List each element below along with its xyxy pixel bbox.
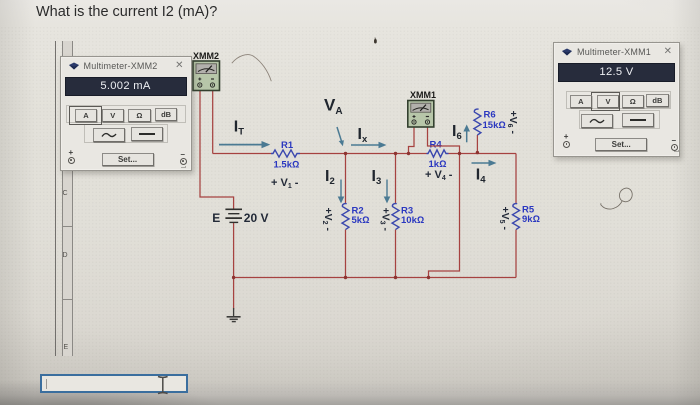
wire mid-right vertical with jog to bottom rail [429,154,460,278]
VA pointer arrow [337,127,344,146]
answer input box [40,374,188,393]
resistor R2 [342,204,369,230]
wire R2 branch top [345,154,347,205]
svg-text:+V5 -: +V5 - [498,207,511,231]
multimeter icon XMM1 [408,90,436,127]
scratch arc doodle [232,55,271,82]
zone letter E [64,344,69,351]
resistor R3 [392,204,424,230]
svg-text:E: E [212,211,220,225]
I-beam mouse cursor [153,372,173,398]
arrow I6 [463,125,470,143]
grip mark XMM1 window corner [674,150,679,152]
junction node XMM1- [458,152,461,155]
zone letter C [63,190,68,197]
wire bottom rail [234,277,516,279]
svg-text:I3: I3 [372,168,382,187]
wire R3 branch top [395,154,397,205]
instrument window XMM1 [553,42,680,157]
svg-text:+V6 -: +V6 - [506,111,519,135]
multimeter icon XMM2 [193,51,220,91]
svg-text:VA: VA [324,96,343,118]
ground [227,308,241,322]
svg-text:20 V: 20 V [244,211,269,225]
svg-text:9kΩ: 9kΩ [522,214,540,225]
svg-text:I6: I6 [452,123,462,142]
question text [36,4,217,20]
battery E 20V [212,209,268,225]
grip mark XMM2 window corner [181,166,186,168]
junction node top R2 [344,152,347,155]
svg-text:+ V1 -: + V1 - [271,177,299,190]
wire XMM1 + terminal jog to rail [409,125,415,154]
junction node XMM1+ [407,152,410,155]
arrow I4 [472,160,497,167]
small ink dot [374,39,377,44]
junction node jog bottom [427,276,430,279]
svg-text:+V2 -: +V2 - [321,208,334,232]
svg-text:10kΩ: 10kΩ [401,215,424,226]
resistor R4 [427,140,449,171]
junction node battery bottom [232,276,235,279]
svg-text:I2: I2 [325,168,335,187]
label +V5- (rotated) [498,207,511,231]
svg-text:R4: R4 [430,140,443,151]
wire XMM2 + terminal to battery top [200,88,234,209]
svg-text:I4: I4 [476,167,486,186]
wire top rail left segment [213,153,271,155]
junction node R3 bottom [394,276,397,279]
wire R5 branch top [515,154,517,205]
junction node R2 bottom [344,276,347,279]
svg-text:+V3 -: +V3 - [379,208,392,232]
svg-text:15kΩ: 15kΩ [483,120,506,131]
arrow I3 [384,180,391,204]
zone letter D [63,252,68,259]
svg-text:XMM2: XMM2 [193,51,219,61]
svg-text:Ix: Ix [358,126,368,145]
resistor R1 [271,140,300,171]
label +V6- (rotated) [506,111,519,135]
label +V2- (rotated) [321,208,334,232]
arrow Ix [351,142,387,149]
instrument window XMM2 [60,56,192,171]
svg-text:5kΩ: 5kΩ [352,215,370,226]
resistor R6 [474,109,506,135]
loop doodle [601,188,632,209]
wire R6 bottom lead [476,135,478,154]
wire top rail middle segment [300,153,427,155]
wire R3 branch bottom [395,230,397,278]
svg-text:IT: IT [234,119,244,138]
svg-text:XMM1: XMM1 [410,90,436,100]
text caret in input [46,379,47,389]
svg-text:1.5kΩ: 1.5kΩ [274,160,300,171]
zone tick marks [62,153,74,154]
wire XMM1 - terminal jog to rail [428,125,460,154]
wire R2 branch bottom [345,230,347,278]
arrow IT [219,141,270,148]
junction node top R3 [394,152,397,155]
svg-text:R6: R6 [484,110,496,121]
wire top rail right segment [449,153,517,155]
label +V3- (rotated) [379,208,392,232]
wire XMM2 - terminal down to top rail [212,88,214,154]
wire R5 branch bottom [515,230,517,278]
junction node R6 bottom [476,151,479,154]
arrow I2 [338,180,345,204]
wire battery bottom lead [233,223,235,310]
svg-text:+ V4 -: + V4 - [425,169,453,182]
sheet border strip (left) [55,41,56,356]
resistor R5 [513,204,540,230]
svg-text:R1: R1 [281,140,294,151]
